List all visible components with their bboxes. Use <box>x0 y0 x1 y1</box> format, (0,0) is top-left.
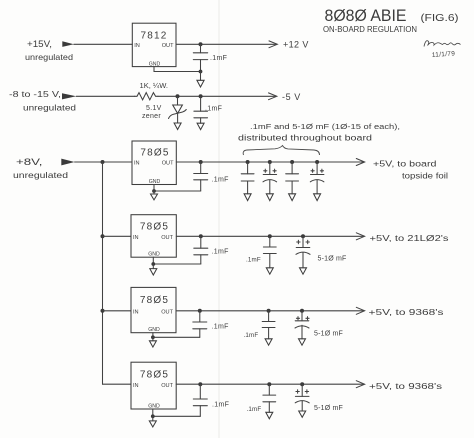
svg-text:+8V,: +8V, <box>16 157 43 167</box>
label .1mF row3 dist <box>244 332 259 339</box>
capacitor C1 .1mF at U1 output <box>193 44 207 71</box>
ground (dist row1 d) <box>314 194 321 201</box>
svg-text:OUT: OUT <box>161 383 173 389</box>
svg-text:GND: GND <box>149 61 161 67</box>
svg-text:+5V, to 21LØ2's: +5V, to 21LØ2's <box>370 233 450 243</box>
label C1 .1mF <box>210 55 227 62</box>
svg-text:-5 V: -5 V <box>282 92 301 102</box>
node: C6 junction <box>198 382 202 386</box>
wire bus to U4 IN <box>103 310 132 312</box>
ground (dist row1 a) <box>244 194 251 201</box>
label 5-10 mF row3 <box>314 330 343 337</box>
svg-text:GND: GND <box>148 404 160 410</box>
node: U4 GND junction <box>151 335 155 339</box>
label +15V unregulated <box>25 39 73 62</box>
input connector -8 to -15V (filled arrow) <box>62 93 76 99</box>
ground (dist row2 a) <box>266 268 273 274</box>
svg-text:.1mF: .1mF <box>205 106 222 113</box>
label C2 .1mF <box>205 106 222 113</box>
wire U2 GND net <box>154 185 201 192</box>
svg-text:.1mF: .1mF <box>212 249 229 256</box>
capacitor C3 .1mF at U2 output <box>194 162 208 191</box>
capacitor C4 .1mF at U3 output <box>194 236 208 264</box>
svg-text:.1mF: .1mF <box>244 332 259 339</box>
input connector +8V (filled arrow) <box>61 159 74 166</box>
label +5V to 21L02's <box>370 233 450 243</box>
svg-text:78Ø5: 78Ø5 <box>140 147 169 158</box>
node: C3 junction <box>199 160 203 164</box>
wire bus elbow to U5 IN <box>103 383 132 385</box>
wire bus to U3 IN <box>103 235 132 237</box>
capacitor 5-10mF electrolytic row1 d <box>310 162 324 194</box>
node: zener junction <box>176 94 180 98</box>
svg-text:+5V, to 9368's: +5V, to 9368's <box>369 307 445 317</box>
label 5-10 mF row2 <box>318 256 347 263</box>
ground (C2) <box>197 123 204 129</box>
label +12 V <box>283 40 309 50</box>
brace over distributed caps <box>243 146 319 156</box>
capacitor C2 .1mF on -5V line <box>194 96 208 123</box>
node: dist cap row2 a <box>268 234 272 238</box>
svg-text:.1mF: .1mF <box>247 406 262 413</box>
wire U5 OUT to +5V arrow <box>176 381 364 388</box>
label +5V to board topside foil <box>373 159 448 181</box>
node: U1 output junction <box>199 42 203 46</box>
svg-text:+12 V: +12 V <box>283 40 309 50</box>
svg-text:8Ø8Ø ABIE: 8Ø8Ø ABIE <box>325 7 407 25</box>
node: C5 junction <box>198 309 202 313</box>
svg-text:-8 to -15 V,: -8 to -15 V, <box>9 89 61 99</box>
wire U3 GND net <box>153 257 201 264</box>
ground (dist row2 b) <box>300 268 307 274</box>
note: distributed capacitors <box>238 122 400 143</box>
regulator U2 7805 <box>132 141 176 185</box>
label +5V to 9368's row3 <box>369 307 445 317</box>
capacitor 5-10mF electrolytic row4 <box>295 384 309 411</box>
svg-text:5-1Ø mF: 5-1Ø mF <box>314 405 343 412</box>
svg-text:IN: IN <box>133 383 139 389</box>
svg-text:ON-BOARD REGULATION: ON-BOARD REGULATION <box>323 25 417 34</box>
capacitor 5-10mF electrolytic row2 <box>296 236 310 267</box>
svg-text:zener: zener <box>142 113 161 120</box>
capacitor .1mF distributed row4 <box>263 384 276 412</box>
title: (FIG.6) <box>421 13 459 24</box>
label +8V unregulated <box>13 157 68 180</box>
label -8 to -15 V unregulated <box>9 89 76 113</box>
svg-text:.1mF and 5-1Ø mF (1Ø-15 of ea: .1mF and 5-1Ø mF (1Ø-15 of each), <box>250 122 400 131</box>
svg-text:78Ø5: 78Ø5 <box>140 295 169 306</box>
wire U3 OUT to +5V arrow <box>176 233 364 240</box>
wire U4 GND net <box>153 333 200 338</box>
svg-text:IN: IN <box>133 235 139 241</box>
ground (dist row4 b) <box>299 411 306 417</box>
svg-text:78Ø5: 78Ø5 <box>140 370 169 381</box>
capacitor .1mF distributed row1 c <box>286 162 299 194</box>
label C3 .1mF <box>212 177 229 184</box>
node: C4 junction <box>199 234 203 238</box>
wire U1 OUT to +12V arrow <box>176 41 277 48</box>
wire U5 GND net <box>153 409 201 416</box>
svg-text:GND: GND <box>149 179 161 185</box>
svg-text:OUT: OUT <box>162 43 174 49</box>
capacitor C5 .1mF at U4 output <box>193 311 207 338</box>
svg-text:distributed throughout board: distributed throughout board <box>238 134 372 143</box>
date 11/1/79 <box>432 50 456 59</box>
node: dist cap row1 c <box>290 160 294 164</box>
regulator U3 7805 <box>131 215 176 258</box>
zener diode D1 5.1V <box>169 96 187 123</box>
label .1mF row2 dist <box>246 257 261 264</box>
label C6 .1mF <box>212 402 229 409</box>
label 5-10 mF row4 <box>314 405 343 412</box>
node: dist cap row3 a <box>267 309 271 313</box>
svg-text:.1mF: .1mF <box>246 257 261 264</box>
wire input to R1 <box>76 95 134 97</box>
svg-text:IN: IN <box>134 43 140 49</box>
ground (dist row1 c) <box>289 194 296 201</box>
signature R. Debaum <box>424 41 461 47</box>
svg-text:IN: IN <box>133 309 139 315</box>
node: bus junction row3 <box>101 309 105 313</box>
svg-text:1K, ¼W.: 1K, ¼W. <box>140 83 169 90</box>
node: U3 GND junction <box>151 262 155 266</box>
node: U2 GND junction <box>152 189 156 193</box>
capacitor .1mF distributed row2 <box>263 236 276 267</box>
wire U2 OUT to +5V arrow <box>176 159 364 166</box>
title: 8080 ABIE <box>325 7 407 25</box>
ground (U4 net) <box>149 337 156 347</box>
regulator U1 7812 <box>132 23 176 67</box>
capacitor .1mF distributed row1 a <box>241 162 254 194</box>
svg-text:unregulated: unregulated <box>13 170 68 180</box>
svg-text:OUT: OUT <box>161 235 173 241</box>
ground (U1 net) <box>197 72 204 88</box>
node: dist cap row4 b <box>300 382 304 386</box>
label D1 5.1V zener <box>142 105 162 120</box>
ground (U2 net) <box>151 191 158 200</box>
capacitor 5-10mF electrolytic row3 <box>295 311 309 339</box>
ground (dist row4 a) <box>266 412 273 419</box>
input connector +15V (filled arrow) <box>62 41 74 47</box>
svg-text:unregulated: unregulated <box>25 52 73 62</box>
node: bus junction row2 <box>101 234 105 238</box>
subtitle: ON-BOARD REGULATION <box>323 25 417 34</box>
svg-text:.1mF: .1mF <box>212 177 229 184</box>
node: C1 bottom junction <box>199 70 203 74</box>
ground (U3 net) <box>150 264 157 275</box>
node: dist cap row4 a <box>267 382 271 386</box>
node: bus junction row1 <box>101 160 105 164</box>
ground (dist row3 a) <box>265 339 272 345</box>
svg-text:.1mF: .1mF <box>212 324 229 331</box>
svg-text:topside foil: topside foil <box>402 171 448 181</box>
svg-text:OUT: OUT <box>162 161 174 167</box>
ground (zener) <box>174 123 181 130</box>
node: dist cap row3 b <box>300 309 304 313</box>
node: dist cap row2 b <box>301 234 305 238</box>
svg-text:GND: GND <box>148 252 160 258</box>
svg-text:GND: GND <box>148 327 160 333</box>
regulator U4 7805 <box>131 287 176 333</box>
svg-text:.1mF: .1mF <box>212 402 229 409</box>
node: U5 GND junction <box>151 414 155 418</box>
svg-text:.1mF: .1mF <box>210 55 227 62</box>
wire +8V input to U2 IN <box>75 161 132 163</box>
wire U1 GND net <box>154 67 201 72</box>
label .1mF row4 dist <box>247 406 262 413</box>
svg-text:5-1Ø mF: 5-1Ø mF <box>314 330 343 337</box>
svg-text:IN: IN <box>134 161 140 167</box>
label C4 .1mF <box>212 249 229 256</box>
wire +8V vertical bus <box>102 162 104 384</box>
svg-text:7812: 7812 <box>140 30 167 41</box>
node: dist cap row1 b <box>268 160 272 164</box>
svg-text:(FIG.6): (FIG.6) <box>421 13 459 24</box>
capacitor 5-10mF electrolytic row1 b <box>263 162 277 194</box>
regulator U5 7805 <box>131 362 176 409</box>
svg-text:5.1V: 5.1V <box>146 105 162 112</box>
svg-text:OUT: OUT <box>161 309 173 315</box>
ground (dist row1 b) <box>266 194 273 201</box>
paper fold line <box>218 0 220 438</box>
label -5 V <box>282 92 301 102</box>
ground (U5 net) <box>149 416 156 427</box>
wire U4 OUT to +5V arrow <box>176 307 365 314</box>
ground (dist row3 b) <box>299 339 306 345</box>
svg-text:+15V,: +15V, <box>27 39 52 49</box>
wire +15V input to U1 IN <box>74 43 133 45</box>
wire R1 to -5V arrow <box>158 93 277 100</box>
label +5V to 9368's row4 <box>369 381 443 391</box>
svg-text:+5V, to 9368's: +5V, to 9368's <box>369 381 443 391</box>
label C5 .1mF <box>212 324 229 331</box>
capacitor .1mF distributed row3 <box>262 311 275 339</box>
node: dist cap row1 a <box>246 160 250 164</box>
label R1 value 1K 1/4W <box>140 83 169 90</box>
svg-text:+5V, to board: +5V, to board <box>373 159 437 169</box>
capacitor C6 .1mF at U5 output <box>193 384 207 416</box>
node: dist cap row1 d <box>315 160 319 164</box>
resistor R1 1K 1/4W <box>135 93 159 100</box>
svg-text:78Ø5: 78Ø5 <box>140 222 169 233</box>
svg-text:unregulated: unregulated <box>23 103 76 113</box>
svg-text:5-1Ø mF: 5-1Ø mF <box>318 256 347 263</box>
node: C2 junction <box>199 94 203 98</box>
